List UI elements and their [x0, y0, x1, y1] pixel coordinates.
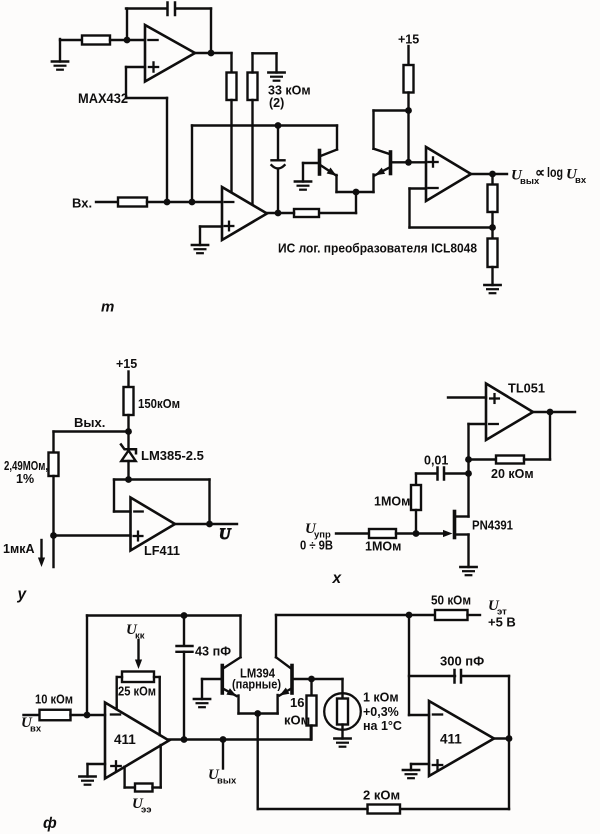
- svg-text:1МОм: 1МОм: [374, 495, 410, 509]
- svg-text:Вх.: Вх.: [72, 196, 92, 211]
- svg-text:43 пФ: 43 пФ: [195, 644, 231, 659]
- svg-text:0 ÷ 9В: 0 ÷ 9В: [300, 539, 333, 553]
- svg-text:ээ: ээ: [141, 805, 152, 816]
- svg-text:т: т: [101, 299, 114, 316]
- svg-text:+5 В: +5 В: [488, 615, 516, 630]
- svg-text:411: 411: [114, 732, 136, 747]
- svg-text:1 кОм: 1 кОм: [363, 691, 399, 705]
- svg-text:∝: ∝: [535, 164, 545, 180]
- svg-text:на 1°С: на 1°С: [363, 719, 402, 733]
- svg-text:20 кОм: 20 кОм: [491, 467, 534, 481]
- svg-text:25 кОм: 25 кОм: [118, 684, 156, 699]
- svg-text:кОм: кОм: [284, 713, 310, 728]
- svg-text:300 пФ: 300 пФ: [440, 654, 484, 669]
- svg-text:LF411: LF411: [144, 543, 180, 558]
- svg-text:U: U: [219, 526, 232, 543]
- svg-text:2 кОм: 2 кОм: [363, 788, 400, 803]
- svg-text:150кОм: 150кОм: [138, 396, 180, 411]
- svg-text:+15: +15: [398, 33, 419, 47]
- svg-text:16: 16: [290, 695, 304, 710]
- svg-text:Вых.: Вых.: [74, 415, 105, 430]
- svg-text:10 кОм: 10 кОм: [35, 692, 73, 707]
- svg-text:50 кОм: 50 кОм: [431, 593, 471, 608]
- svg-text:LM385-2.5: LM385-2.5: [141, 448, 204, 463]
- svg-text:(2): (2): [269, 96, 284, 110]
- svg-text:ф: ф: [43, 815, 57, 832]
- svg-text:1мкА: 1мкА: [3, 542, 34, 556]
- svg-text:1%: 1%: [16, 472, 34, 486]
- svg-text:(парные): (парные): [232, 678, 281, 692]
- svg-text:у: у: [17, 586, 28, 603]
- svg-text:кк: кк: [135, 631, 145, 642]
- svg-text:вх: вх: [575, 175, 587, 186]
- svg-text:1МОм: 1МОм: [365, 540, 401, 554]
- svg-text:+0,3%: +0,3%: [363, 705, 399, 719]
- svg-text:log: log: [547, 165, 563, 180]
- svg-text:0,01: 0,01: [424, 454, 448, 468]
- svg-text:2,49МОм,: 2,49МОм,: [4, 459, 48, 473]
- svg-text:+15: +15: [116, 357, 137, 371]
- svg-text:411: 411: [440, 732, 462, 747]
- svg-text:PN4391: PN4391: [472, 518, 513, 533]
- svg-text:вх: вх: [30, 724, 42, 735]
- svg-text:ИС лог. преобразователя ICL804: ИС лог. преобразователя ICL8048: [278, 241, 477, 256]
- svg-text:х: х: [332, 570, 343, 587]
- svg-text:вых: вых: [217, 776, 237, 787]
- svg-text:TL051: TL051: [508, 381, 545, 396]
- svg-text:MAX432: MAX432: [78, 91, 128, 106]
